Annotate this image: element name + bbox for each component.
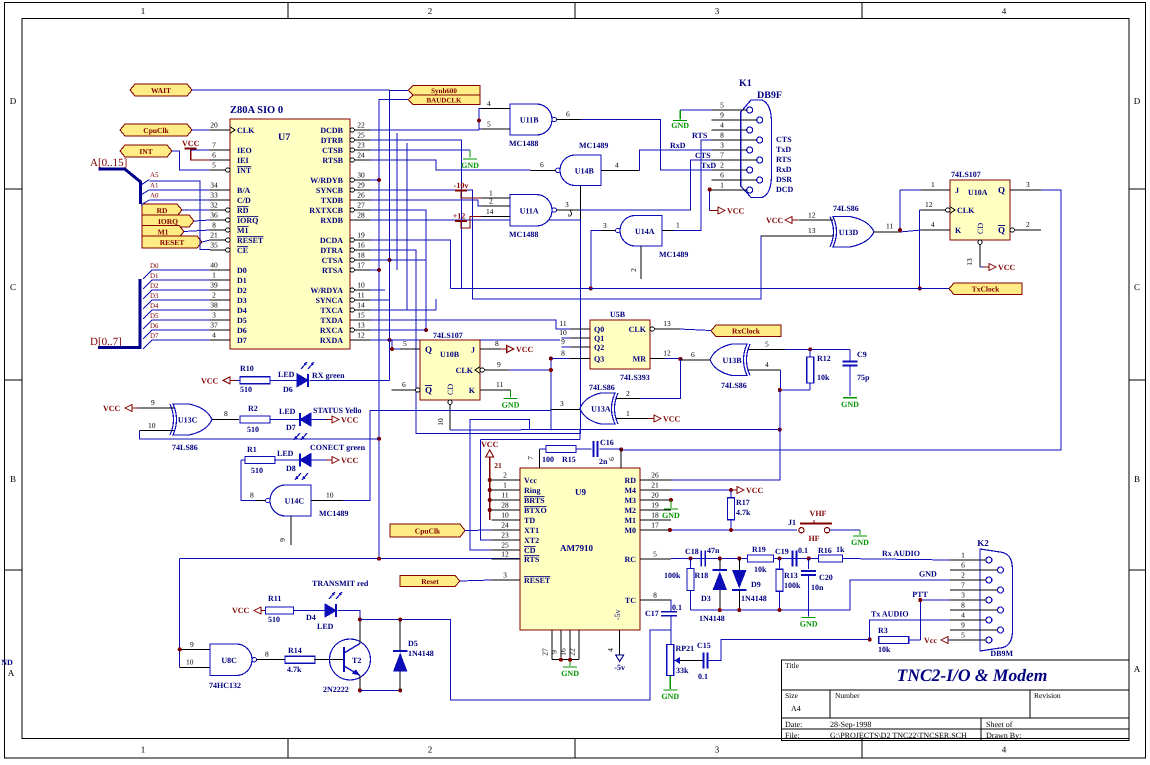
svg-text:GND: GND (502, 401, 520, 410)
net flag TxClock (949, 283, 1022, 295)
wire Tx AUDIO to K2 pin4 (870, 620, 950, 640)
svg-text:RD: RD (624, 476, 636, 485)
ground at RP21 (661, 690, 679, 701)
U9 pin 19 M2 (624, 501, 670, 516)
svg-text:20: 20 (210, 121, 218, 130)
nand gate U11A MC1488 (482, 189, 579, 240)
wire U10A Q long loop (621, 190, 1061, 450)
svg-text:DCDA: DCDA (320, 236, 343, 245)
power VCC arrow at U13A pin1 (648, 415, 681, 424)
svg-text:CLK: CLK (456, 366, 474, 375)
svg-text:Synh600: Synh600 (431, 87, 457, 95)
svg-text:U14B: U14B (575, 166, 595, 175)
svg-text:C16: C16 (600, 438, 614, 447)
svg-text:9: 9 (497, 360, 501, 369)
svg-text:BAUDCLK: BAUDCLK (426, 97, 462, 105)
capacitor C15 (697, 641, 711, 681)
svg-text:VCC: VCC (341, 456, 359, 465)
svg-text:4: 4 (765, 360, 769, 369)
U7 pin 23 CTSB (322, 141, 370, 156)
junction (398, 618, 402, 622)
svg-text:14: 14 (357, 301, 365, 310)
wire SYNCB trunk (370, 190, 790, 299)
svg-text:9: 9 (278, 538, 287, 542)
svg-text:U13B: U13B (722, 356, 742, 365)
svg-text:6: 6 (540, 160, 544, 169)
wire TxClock row (450, 287, 949, 289)
wire U13C pin10 long row (139, 431, 379, 439)
svg-text:7: 7 (720, 151, 724, 160)
power VCC arrow at K1 pin1 (712, 207, 745, 216)
svg-text:3: 3 (565, 200, 569, 209)
svg-text:IORQ: IORQ (237, 216, 258, 225)
svg-text:1k: 1k (836, 545, 845, 554)
wire CpuClk to XT1 (465, 529, 492, 532)
svg-text:Q: Q (998, 185, 1005, 195)
svg-text:4: 4 (487, 99, 491, 108)
svg-text:MC1489: MC1489 (579, 141, 608, 150)
svg-text:12: 12 (501, 550, 509, 559)
junction (737, 608, 741, 612)
power VCC arrow at U10A CD (983, 263, 1016, 272)
svg-text:GND: GND (662, 511, 680, 520)
U9 pin 28 BTXO (492, 501, 547, 516)
svg-text:TC: TC (625, 596, 636, 605)
wire collector node to C17 node (360, 620, 671, 700)
U9 pin 7 and R15 (526, 446, 592, 469)
svg-text:18: 18 (651, 511, 659, 520)
wire trunk a (396, 133, 398, 270)
wire U10A CLK trunk (920, 210, 921, 288)
svg-text:ND: ND (1, 658, 13, 667)
wire trunk b (406, 143, 408, 310)
svg-text:4: 4 (615, 161, 619, 170)
svg-text:CTS: CTS (695, 151, 711, 160)
xor gate U13D 74LS86 (761, 204, 900, 247)
svg-text:5: 5 (403, 339, 407, 348)
svg-text:Date:: Date: (785, 720, 802, 729)
svg-text:23: 23 (501, 531, 509, 540)
svg-text:32: 32 (210, 201, 218, 210)
svg-text:13: 13 (965, 258, 974, 266)
svg-text:A0: A0 (150, 192, 159, 200)
svg-text:M1: M1 (237, 226, 249, 235)
svg-text:CLK: CLK (629, 325, 647, 334)
net flag WAIT (130, 84, 192, 96)
K2 pin 5 (950, 631, 992, 644)
svg-text:RD: RD (237, 206, 249, 215)
svg-text:0.1: 0.1 (698, 672, 708, 681)
svg-text:C18: C18 (685, 547, 699, 556)
svg-text:C: C (10, 282, 16, 292)
svg-text:D0: D0 (237, 266, 247, 275)
K1 pin 4 (712, 121, 753, 134)
svg-text:Q1: Q1 (594, 334, 604, 343)
svg-text:8: 8 (250, 491, 254, 500)
svg-text:100: 100 (542, 455, 554, 464)
wire CTSA (370, 259, 426, 261)
svg-text:K1: K1 (739, 78, 752, 89)
svg-text:DCDB: DCDB (320, 126, 343, 135)
svg-text:Revision: Revision (1034, 691, 1061, 700)
wire U11A out to K1 pin7 (579, 160, 712, 210)
junction (778, 557, 782, 561)
wire M0 row to J1 (671, 529, 797, 531)
wire PTT net (912, 590, 950, 640)
svg-text:CpuClk: CpuClk (143, 126, 169, 135)
K1 pin 8 (712, 131, 763, 144)
svg-text:27: 27 (357, 201, 365, 210)
K2 pin 8 (950, 601, 1004, 614)
svg-text:10k: 10k (817, 373, 830, 382)
wire U11B out to K1 pin2 (581, 120, 712, 171)
svg-text:DTRA: DTRA (320, 246, 343, 255)
U10A pin 2 Qbar (1010, 220, 1041, 232)
svg-text:6: 6 (691, 350, 695, 359)
svg-text:2N2222: 2N2222 (323, 685, 349, 694)
U7 pin 5 INT (210, 161, 252, 176)
svg-text:MC1489: MC1489 (659, 250, 688, 259)
svg-text:TXCA: TXCA (320, 306, 343, 315)
svg-text:33: 33 (210, 191, 218, 200)
svg-text:SYNCB: SYNCB (316, 186, 344, 195)
svg-text:74LS393: 74LS393 (620, 373, 650, 382)
svg-text:6: 6 (402, 380, 406, 389)
svg-text:C17: C17 (645, 609, 659, 618)
wire W/RDYA (370, 289, 385, 291)
svg-text:11: 11 (496, 380, 503, 389)
wire U14B out to K1 pin3 (640, 150, 712, 170)
svg-text:D6: D6 (237, 326, 247, 335)
svg-text:D7: D7 (150, 332, 159, 340)
U7 pin 2 D3 (210, 291, 247, 306)
svg-text:RTSA: RTSA (322, 266, 343, 275)
U9 pin 25 CD (492, 541, 536, 556)
IC U10A 74LS107 (950, 170, 1010, 240)
led D7 STATUS Yello (279, 406, 362, 440)
wire K1 pin1 to VCC (710, 190, 716, 211)
wire RESET flag (202, 240, 210, 242)
svg-text:2: 2 (1026, 220, 1030, 229)
U10B pin 8 J to VCC (480, 339, 505, 349)
svg-text:Q: Q (425, 385, 432, 395)
svg-text:15: 15 (357, 311, 365, 320)
bus A[0..15] (90, 157, 141, 204)
diode D5 1N4148 (393, 620, 434, 691)
svg-text:4: 4 (212, 331, 216, 340)
IC U7 Z80A SIO 0 (230, 105, 350, 349)
svg-text:RESET: RESET (237, 236, 264, 245)
svg-text:21: 21 (494, 461, 502, 470)
junction (778, 608, 782, 612)
led D8 CONECT green (277, 443, 366, 480)
svg-text:C15: C15 (697, 641, 711, 650)
svg-text:4: 4 (931, 220, 935, 229)
junction (390, 347, 394, 351)
svg-text:C19: C19 (775, 547, 789, 556)
wire RTSA (370, 269, 379, 271)
svg-text:510: 510 (268, 615, 280, 624)
wire RXCA (370, 329, 426, 331)
power VCC arrow at R11 (232, 606, 267, 615)
power VCC arrow at R10 (201, 377, 236, 386)
svg-text:-10v: -10v (454, 181, 469, 190)
svg-text:R17: R17 (736, 498, 750, 507)
svg-text:RxClock: RxClock (732, 327, 761, 336)
svg-text:22: 22 (568, 648, 577, 656)
U5B pin 13 CLK (650, 319, 679, 331)
svg-text:XT1: XT1 (524, 526, 539, 535)
ground at C9 (841, 398, 859, 409)
power Vcc arrow at K2 pin5 (924, 636, 954, 645)
svg-text:VCC: VCC (727, 207, 745, 216)
svg-text:40: 40 (210, 261, 218, 270)
U7 pin 20 CLK (210, 121, 255, 136)
svg-text:CD: CD (524, 546, 536, 555)
svg-text:18: 18 (357, 251, 365, 260)
svg-text:33k: 33k (676, 666, 689, 675)
svg-text:19: 19 (357, 231, 365, 240)
svg-text:RTS: RTS (776, 155, 792, 164)
svg-text:Sheet of: Sheet of (986, 720, 1013, 729)
svg-text:LED: LED (278, 370, 295, 379)
svg-text:8: 8 (720, 131, 724, 140)
wire U10B CD row (450, 429, 780, 431)
net flag INT (120, 145, 172, 157)
U9 pin 21 M4 (624, 481, 670, 496)
bus entry A5 (141, 180, 149, 186)
svg-text:TXDB: TXDB (321, 196, 344, 205)
svg-text:9: 9 (549, 650, 558, 654)
svg-text:VCC: VCC (746, 486, 764, 495)
svg-text:11: 11 (886, 222, 893, 231)
bus entry + wire D5 (143, 312, 210, 329)
power VCC at U7 IEO/IEI (182, 139, 210, 160)
net flags Synh600 / BAUDCLK (408, 86, 480, 105)
svg-text:10: 10 (501, 511, 509, 520)
svg-text:D4: D4 (150, 302, 159, 310)
wire DCDA to TxClock (370, 240, 450, 288)
svg-text:BRTS: BRTS (524, 496, 545, 505)
svg-text:B/A: B/A (237, 186, 251, 195)
bus entry + wire D3 (143, 292, 210, 309)
wire RXDA to U10B Q (392, 340, 400, 349)
svg-text:C20: C20 (819, 573, 833, 582)
U7 pin 10 W/RDYA (310, 281, 370, 296)
svg-text:IORQ: IORQ (158, 217, 178, 226)
svg-text:Vcc: Vcc (924, 636, 937, 645)
svg-text:9: 9 (720, 111, 724, 120)
svg-text:D7: D7 (286, 423, 296, 432)
wire A0 (149, 192, 210, 201)
svg-text:0.1: 0.1 (672, 603, 682, 612)
led D6 RX green (278, 362, 345, 394)
junction (488, 488, 492, 492)
svg-text:DSR: DSR (776, 175, 792, 184)
U9 bottom pins 27 9 16 22 (540, 630, 579, 666)
junction (808, 347, 812, 351)
junction (807, 557, 811, 561)
svg-text:8: 8 (495, 339, 499, 348)
svg-text:RxD: RxD (776, 165, 792, 174)
svg-text:28: 28 (501, 501, 509, 510)
U7 pin 19 DCDA (320, 231, 370, 246)
svg-text:100k: 100k (784, 581, 801, 590)
svg-text:R10: R10 (240, 364, 254, 373)
svg-text:D5: D5 (237, 316, 247, 325)
svg-text:M3: M3 (624, 496, 636, 505)
svg-text:7: 7 (526, 456, 535, 460)
svg-text:U14C: U14C (285, 497, 305, 506)
svg-text:W/RDYA: W/RDYA (310, 286, 343, 295)
U7 pin 36 IORQ (210, 211, 258, 226)
svg-text:G:\PROJECTS\D2 TNC22\TNCSER.S: G:\PROJECTS\D2 TNC22\TNCSER.SCH (830, 731, 967, 740)
junction (568, 658, 572, 662)
svg-text:VCC: VCC (481, 440, 499, 449)
U7 pin 16 DTRA (320, 241, 370, 256)
svg-text:R11: R11 (268, 594, 281, 603)
K1 pin 6 (712, 171, 763, 184)
IC U10B 74LS107 (420, 331, 480, 400)
svg-text:-5v: -5v (613, 609, 622, 620)
junction (377, 268, 381, 272)
wire Synh600 stub (390, 90, 409, 92)
K1 pin 3 (712, 141, 753, 154)
svg-text:Q: Q (998, 225, 1005, 235)
ground at CTSB (461, 150, 479, 170)
svg-text:U13D: U13D (839, 228, 859, 237)
svg-text:20: 20 (651, 491, 659, 500)
svg-text:10: 10 (326, 491, 334, 500)
K2 pin 1 (950, 551, 992, 564)
svg-text:3: 3 (603, 221, 607, 230)
svg-text:VCC: VCC (182, 139, 200, 148)
net flag M1 (142, 226, 184, 238)
junction (388, 338, 392, 342)
svg-text:U5B: U5B (610, 310, 626, 319)
svg-text:U9: U9 (575, 487, 586, 497)
U7 pin 38 D4 (210, 301, 247, 316)
svg-text:PTT: PTT (912, 590, 928, 599)
bus D[0..7] (90, 279, 140, 348)
K1 pin 7 (712, 151, 763, 164)
svg-text:26: 26 (651, 471, 659, 480)
K1 pin 5 (712, 101, 753, 114)
svg-text:K: K (955, 226, 962, 235)
svg-text:CTS: CTS (776, 135, 792, 144)
svg-text:4: 4 (1002, 6, 1007, 16)
svg-text:13: 13 (357, 321, 365, 330)
svg-text:MC1489: MC1489 (319, 509, 348, 518)
wire CTSB to GND (370, 149, 470, 151)
svg-text:39: 39 (210, 281, 218, 290)
U9 pin 12 RTS (492, 550, 540, 565)
svg-text:GND: GND (561, 669, 579, 678)
U7 pin 33 C/D (210, 191, 251, 206)
power -10v at U11A pin1 (454, 181, 482, 198)
svg-text:24: 24 (501, 521, 509, 530)
svg-text:R12: R12 (817, 354, 831, 363)
svg-text:6: 6 (212, 151, 216, 160)
wire U13D out to U10A (900, 190, 921, 232)
wire C15 to Tx AUDIO node (708, 640, 870, 661)
svg-text:47n: 47n (707, 546, 720, 555)
svg-text:Rx AUDIO: Rx AUDIO (882, 549, 920, 558)
svg-text:R13: R13 (784, 571, 798, 580)
capacitor C18 (685, 546, 720, 567)
svg-text:2: 2 (212, 291, 216, 300)
junction (477, 119, 481, 123)
svg-text:DTRB: DTRB (321, 136, 344, 145)
svg-text:74LS86: 74LS86 (833, 204, 859, 213)
svg-text:D2: D2 (237, 286, 247, 295)
svg-text:6: 6 (607, 457, 616, 461)
K2 pin 3 (950, 591, 992, 604)
junction (918, 286, 922, 290)
svg-text:100k: 100k (664, 571, 681, 580)
U9 pin 23 XT2 (492, 531, 540, 546)
svg-text:Q: Q (425, 345, 432, 355)
svg-text:HF: HF (808, 534, 819, 543)
svg-text:CLK: CLK (237, 126, 255, 135)
wire W/RDYB (370, 179, 379, 181)
svg-text:U10B: U10B (440, 350, 460, 359)
svg-text:3: 3 (715, 745, 720, 755)
svg-text:25: 25 (501, 541, 509, 550)
net flag RxClock (711, 325, 781, 337)
resistor R19 (748, 545, 774, 574)
wire BAUDCLK trunk (379, 100, 408, 559)
svg-text:Q0: Q0 (594, 325, 604, 334)
U7 pin 34 B/A (210, 181, 251, 196)
junction (424, 328, 428, 332)
svg-text:B: B (10, 474, 16, 484)
K2 pin 9 (950, 621, 1004, 634)
wire RTSB to U14B input (370, 160, 530, 170)
svg-text:Title: Title (785, 661, 800, 670)
wire DTRB trunk (370, 140, 462, 288)
U7 pin 4 D7 (210, 331, 247, 346)
power VCC arrow at U10B J (501, 345, 534, 354)
wire TXCA (370, 299, 436, 310)
xor gate U13A 74LS86 (551, 383, 652, 430)
svg-text:VCC: VCC (103, 404, 121, 413)
svg-text:Z80A SIO 0: Z80A SIO 0 (230, 105, 283, 116)
junction (178, 647, 182, 651)
nand gate U11B MC1488 (482, 99, 581, 148)
junction (377, 178, 381, 182)
svg-text:C: C (1134, 282, 1140, 292)
connector K2 DB9M (977, 538, 1013, 658)
and gate U14C MC1489 (250, 485, 348, 545)
svg-text:GND: GND (919, 570, 937, 579)
wire U13B pin5 node (785, 348, 850, 350)
svg-text:16: 16 (559, 648, 568, 656)
U10A pin 1 J (921, 180, 950, 190)
svg-text:LED: LED (279, 407, 296, 416)
svg-text:R1: R1 (247, 445, 257, 454)
svg-text:510: 510 (240, 385, 252, 394)
svg-text:D8: D8 (286, 464, 296, 473)
svg-text:10: 10 (357, 281, 365, 290)
svg-text:9: 9 (961, 621, 965, 630)
svg-text:U13C: U13C (178, 416, 198, 425)
svg-text:RD: RD (157, 206, 168, 215)
svg-text:R3: R3 (878, 626, 888, 635)
svg-text:RESET: RESET (160, 238, 185, 247)
svg-text:MC1488: MC1488 (509, 139, 538, 148)
U10B pin 9 CLK (456, 360, 509, 375)
